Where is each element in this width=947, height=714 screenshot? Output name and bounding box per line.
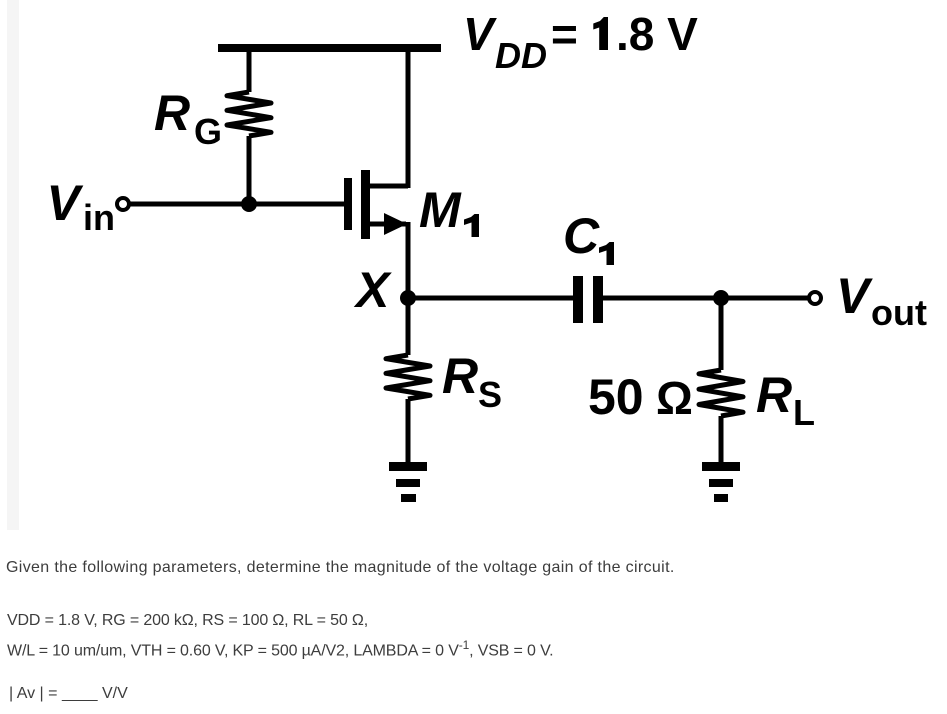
transistor M1 gate bar — [344, 178, 352, 230]
svg-text:in: in — [83, 197, 115, 238]
wire: node X down to RS top — [406, 298, 411, 355]
svg-text:R: R — [154, 85, 190, 141]
question text — [6, 555, 675, 580]
svg-text:L: L — [793, 392, 815, 433]
svg-text:50: 50 — [588, 369, 644, 425]
wire: drain horizontal — [368, 184, 408, 189]
wire: C1 right plate to Vout terminal — [603, 296, 810, 301]
svg-text:DD: DD — [495, 35, 547, 76]
wire: RG bottom to gate junction — [247, 136, 252, 206]
svg-text:S: S — [478, 374, 502, 415]
capacitor C1 plates — [573, 276, 583, 323]
svg-text:R: R — [756, 367, 792, 423]
svg-text:V: V — [836, 268, 873, 324]
node: output junction dot — [713, 290, 729, 306]
label VDD = 1.8 V — [463, 8, 698, 76]
wire: Vout junction down to RL top — [719, 298, 724, 370]
wire: source vertical down to node X — [406, 222, 411, 300]
wire: Vin terminal to gate bar — [129, 202, 345, 207]
svg-text:G: G — [194, 111, 222, 152]
label RL — [756, 367, 815, 433]
wire: RS bottom to ground — [406, 399, 411, 464]
node: gate junction dot — [241, 196, 257, 212]
svg-text:M: M — [419, 182, 462, 238]
svg-text:R: R — [442, 348, 478, 404]
circuit schematic — [0, 0, 947, 530]
svg-text:V: V — [47, 175, 84, 231]
left gray strip — [7, 0, 19, 530]
ground (RL) — [702, 462, 740, 502]
svg-text:X: X — [353, 262, 392, 318]
wire: node X to C1 left plate — [408, 296, 573, 301]
label RG — [154, 85, 222, 152]
transistor M1 source arrow — [384, 213, 407, 235]
wire: RL bottom to ground — [719, 416, 724, 464]
svg-text:out: out — [871, 292, 927, 333]
wire: VDD rail to RG top — [247, 50, 252, 92]
svg-text:C: C — [563, 208, 600, 264]
svg-text:=: = — [551, 8, 578, 60]
terminal: Vin open circle — [117, 198, 129, 210]
terminal: Vout open circle — [809, 292, 821, 304]
ground (RS) — [389, 462, 427, 502]
label Vout — [836, 268, 927, 333]
VDD rail — [218, 44, 441, 52]
label RS — [442, 348, 502, 415]
label Vin — [47, 175, 116, 238]
wire: source horizontal — [368, 222, 406, 227]
label M1 — [419, 182, 479, 238]
node X dot — [400, 290, 416, 306]
label C1 — [563, 208, 614, 265]
transistor M1 channel bar — [361, 170, 370, 239]
resistor RG — [227, 92, 271, 136]
resistor RL — [699, 370, 743, 416]
svg-text:Ω: Ω — [656, 372, 693, 424]
svg-text:V: V — [463, 8, 497, 60]
svg-text:.8 V: .8 V — [616, 8, 698, 60]
wire: drain vertical to VDD rail — [406, 50, 411, 188]
resistor RS — [386, 355, 430, 399]
